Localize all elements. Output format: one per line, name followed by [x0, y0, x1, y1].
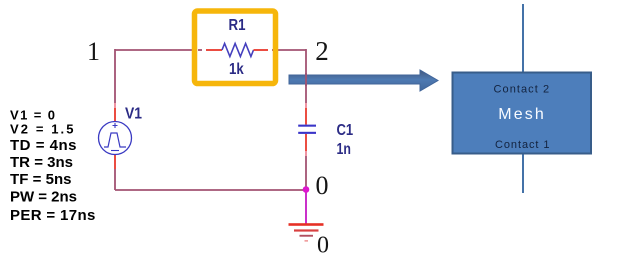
wire red pin below V1 [114, 154, 116, 169]
wire red pin into C1 top [305, 108, 307, 125]
resistor R1 red pin right [254, 49, 269, 51]
svg-text:Contact 1: Contact 1 [495, 139, 550, 151]
svg-text:0: 0 [316, 171, 329, 200]
R1 highlight orange box [195, 11, 276, 84]
svg-text:Contact 2: Contact 2 [494, 83, 550, 95]
svg-text:1: 1 [87, 37, 100, 66]
wire pink dash above C1 [305, 103, 307, 108]
wire red pin into V1 top [114, 108, 116, 122]
capacitor C1 top plate [298, 125, 316, 127]
ground symbol line 3 [300, 235, 314, 237]
block arrow [289, 70, 438, 91]
svg-text:2: 2 [315, 36, 329, 66]
wire red pin below C1 [305, 134, 307, 151]
capacitor C1 bottom plate [298, 132, 316, 134]
svg-text:Mesh: Mesh [498, 106, 544, 123]
mesh box [453, 73, 592, 154]
wire right vertical upper [305, 49, 307, 103]
svg-text:PER = 17ns: PER = 17ns [10, 207, 95, 224]
wire top from node 1 corner to R1 box [115, 49, 192, 51]
wire left vertical upper [114, 49, 116, 103]
svg-text:TF = 5ns: TF = 5ns [10, 171, 72, 188]
ground symbol line 1 [289, 223, 324, 226]
V1 minus mark [111, 150, 119, 152]
wire top from R1 box to node 2 corner [278, 49, 306, 51]
ground symbol line 4 [305, 240, 309, 242]
svg-text:V2 = 1.5: V2 = 1.5 [10, 122, 74, 137]
resistor R1 wire stub left inside box [198, 49, 202, 51]
voltage source V1 circle [99, 122, 132, 155]
wire bottom horizontal [115, 189, 306, 191]
svg-text:PW = 2ns: PW = 2ns [10, 189, 77, 206]
svg-text:TR = 3ns: TR = 3ns [10, 154, 73, 171]
svg-text:1k: 1k [229, 61, 244, 78]
V1 pulse waveform [104, 133, 126, 147]
parameter text block [10, 108, 95, 224]
svg-text:V1 = 0: V1 = 0 [10, 108, 55, 123]
wire pink dash below C1 [305, 151, 307, 156]
wire right vertical lower [305, 156, 307, 190]
resistor R1 wire stub right inside box [272, 49, 278, 51]
junction dot node 0 [303, 186, 310, 193]
wire left vertical lower [114, 169, 116, 190]
svg-text:R1: R1 [229, 17, 246, 34]
mesh vertical line upper [522, 4, 524, 72]
mesh vertical line lower [522, 154, 524, 193]
svg-text:C1: C1 [337, 122, 354, 139]
wire crossing over arrow [305, 73, 307, 86]
svg-text:TD = 4ns: TD = 4ns [10, 137, 77, 154]
resistor R1 zigzag [222, 44, 254, 57]
wire ground stub magenta [305, 190, 307, 224]
svg-text:1n: 1n [337, 141, 351, 158]
wire pink dash above V1 [114, 103, 116, 108]
ground symbol line 2 [294, 229, 319, 231]
resistor R1 red pin left [206, 49, 222, 51]
svg-text:0: 0 [317, 233, 329, 258]
V1 plus mark [113, 123, 118, 128]
svg-text:V1: V1 [125, 106, 142, 123]
